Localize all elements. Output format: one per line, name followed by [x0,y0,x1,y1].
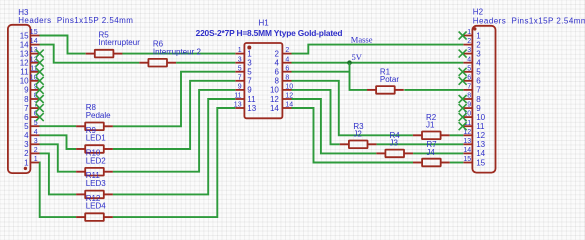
svg-text:LED4: LED4 [86,202,107,211]
svg-text:11: 11 [234,93,241,100]
svg-text:LED3: LED3 [86,179,107,188]
svg-text:7: 7 [247,77,252,86]
svg-text:LED2: LED2 [86,156,107,165]
svg-text:10: 10 [20,77,29,86]
svg-text:6: 6 [467,74,471,81]
svg-text:3: 3 [34,138,38,145]
svg-text:9: 9 [238,84,242,91]
svg-text:H1: H1 [259,19,270,28]
svg-text:3: 3 [467,47,471,54]
svg-text:11: 11 [476,122,485,131]
svg-text:11: 11 [247,95,256,104]
svg-text:9: 9 [476,104,481,113]
svg-text:4: 4 [24,131,29,140]
svg-text:1: 1 [34,156,38,163]
svg-text:7: 7 [238,74,242,81]
svg-text:3: 3 [238,56,242,63]
svg-text:1: 1 [467,29,471,36]
svg-text:9: 9 [467,102,471,109]
svg-text:1: 1 [247,49,252,58]
svg-text:14: 14 [476,149,485,158]
svg-text:6: 6 [24,113,29,122]
svg-text:13: 13 [463,138,471,145]
svg-text:15: 15 [20,31,29,40]
svg-text:LED1: LED1 [86,134,107,143]
svg-text:15: 15 [30,29,38,36]
svg-text:14: 14 [30,38,38,45]
svg-text:4: 4 [34,129,38,136]
svg-text:5: 5 [24,122,29,131]
svg-text:4: 4 [476,59,481,68]
svg-text:11: 11 [20,68,29,77]
svg-text:2: 2 [34,147,38,154]
svg-text:2: 2 [476,40,481,49]
svg-text:Pedale: Pedale [86,111,111,120]
svg-text:12: 12 [270,95,279,104]
svg-text:8: 8 [285,74,289,81]
svg-text:220S-2*7P H=8.5MM Ytype Gold-p: 220S-2*7P H=8.5MM Ytype Gold-plated [196,28,343,38]
svg-text:H2: H2 [473,7,484,16]
svg-text:J3: J3 [390,139,399,148]
svg-text:5: 5 [467,65,471,72]
svg-text:2: 2 [285,47,289,54]
svg-text:Potar: Potar [380,75,399,84]
svg-text:14: 14 [270,104,279,113]
svg-text:12: 12 [20,59,29,68]
svg-text:10: 10 [270,86,279,95]
svg-text:Interrupteur 2: Interrupteur 2 [153,47,202,56]
svg-text:7: 7 [24,104,29,113]
svg-text:15: 15 [476,158,485,167]
svg-text:8: 8 [24,95,29,104]
svg-text:5V: 5V [352,52,363,62]
svg-text:3: 3 [24,140,29,149]
svg-text:4: 4 [274,59,279,68]
svg-text:1: 1 [24,158,29,167]
svg-text:5: 5 [238,65,242,72]
svg-text:6: 6 [274,68,279,77]
svg-text:15: 15 [463,156,471,163]
svg-text:4: 4 [285,56,289,63]
svg-text:9: 9 [247,86,252,95]
svg-text:1: 1 [476,31,481,40]
svg-text:5: 5 [247,68,252,77]
svg-text:Masse: Masse [351,34,373,44]
svg-text:14: 14 [463,147,471,154]
svg-text:6: 6 [476,77,481,86]
svg-text:Headers Pins1x15P 2.54mm: Headers Pins1x15P 2.54mm [473,16,585,25]
svg-text:7: 7 [467,84,471,91]
svg-text:2: 2 [274,49,279,58]
svg-text:Headers Pins1x15P 2.54mm: Headers Pins1x15P 2.54mm [18,16,133,25]
svg-text:10: 10 [476,113,485,122]
svg-text:Interrupteur: Interrupteur [99,38,141,47]
svg-text:6: 6 [285,65,289,72]
svg-text:3: 3 [247,59,252,68]
svg-text:J1: J1 [426,121,435,130]
svg-text:4: 4 [467,56,471,63]
svg-text:12: 12 [463,129,471,136]
svg-text:J4: J4 [426,148,435,157]
svg-text:3: 3 [476,49,481,58]
svg-text:J2: J2 [353,130,362,139]
svg-text:2: 2 [24,149,29,158]
svg-text:8: 8 [467,93,471,100]
svg-text:1: 1 [238,47,242,54]
svg-text:13: 13 [247,104,256,113]
svg-text:13: 13 [20,49,29,58]
svg-text:7: 7 [476,86,481,95]
svg-text:9: 9 [24,86,29,95]
svg-text:8: 8 [274,77,279,86]
svg-text:8: 8 [476,95,481,104]
svg-text:13: 13 [476,140,485,149]
svg-text:2: 2 [467,38,471,45]
svg-text:14: 14 [20,40,29,49]
svg-text:12: 12 [476,131,485,140]
svg-text:5: 5 [476,68,481,77]
